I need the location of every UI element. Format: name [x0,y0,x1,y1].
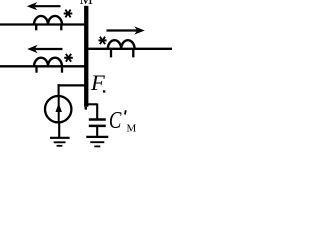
svg-text:M: M [80,0,93,8]
power-direction arrow of line 1 (points left) [27,2,61,10]
current source I (fault current source) [45,96,71,123]
polarity asterisk of line 1 CT [64,10,73,18]
power-direction arrow of line 3 (points right) [107,26,145,34]
svg-text:M: M [127,122,137,134]
wire: right feeder line 3 [86,48,172,50]
winding leads of line 2 CT [37,67,63,73]
polarity asterisk of line 2 CT [64,54,73,62]
bus M (vertical busbar) [84,6,88,110]
winding (CT) on line 2 [34,58,62,67]
wire: left feeder line 1 [0,23,86,25]
label F1 (fault point) [90,70,105,95]
polarity asterisk of line 3 CT [99,37,107,44]
winding (CT) on line 1 [34,16,62,25]
winding (CT) on line 3 [108,40,135,49]
wire: left feeder line 2 [0,65,86,67]
wire: bus to current source (horizontal + down stub) [58,84,87,96]
svg-text:F: F [90,70,105,95]
winding leads of line 3 CT [111,49,133,57]
wire: bus to network capacitance CM [86,104,97,119]
ground (under capacitor CM) [86,137,108,147]
winding leads of line 1 CT [36,25,61,31]
capacitor CM [89,120,106,126]
wire: capacitor to ground [96,127,98,137]
power-direction arrow of line 2 (points left) [27,45,62,53]
wire: current source to ground [58,122,60,138]
ground (under current source) [50,138,70,146]
label CM (network capacitance) [109,107,137,134]
svg-text:C: C [109,107,122,134]
